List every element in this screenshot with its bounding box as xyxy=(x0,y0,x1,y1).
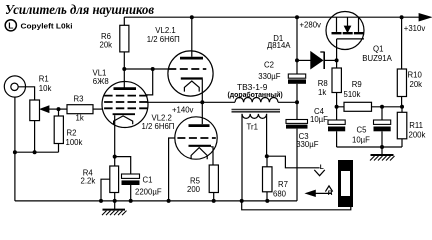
wire node A to R3 xyxy=(59,108,68,110)
diode D1 xyxy=(297,52,337,69)
wire right bottom bus xyxy=(337,145,402,149)
input jack XS1 xyxy=(4,76,25,97)
resistor R4 xyxy=(110,157,119,201)
svg-text:100k: 100k xyxy=(66,138,83,147)
svg-text:20k: 20k xyxy=(100,41,113,50)
VL1 cathode lead xyxy=(114,115,116,156)
wire pot bottom bus xyxy=(13,121,59,155)
svg-text:Tr1: Tr1 xyxy=(247,123,258,132)
svg-text:R2: R2 xyxy=(67,129,77,138)
capacitor C5 xyxy=(374,107,391,147)
node Q1 gate dot xyxy=(335,58,339,62)
title xyxy=(5,3,155,18)
label C3 330µF xyxy=(296,132,319,149)
svg-text:1k: 1k xyxy=(318,88,326,97)
resistor R10 xyxy=(397,15,406,107)
Tr1 secondary right lead xyxy=(266,114,268,156)
label R4 2.2k xyxy=(81,168,96,185)
svg-text:10µF: 10µF xyxy=(352,135,370,144)
wire sleeve return xyxy=(242,201,351,210)
VL2.1 cathode lead xyxy=(201,80,203,103)
node Tr1/R7 dot xyxy=(265,154,269,158)
tube VL1 envelope xyxy=(102,82,148,128)
svg-text:1k: 1k xyxy=(76,114,84,123)
label R8 1k xyxy=(318,79,328,97)
rail +140v xyxy=(147,101,297,103)
svg-text:200k: 200k xyxy=(409,131,426,140)
node VL1 cathode dot xyxy=(113,155,117,159)
svg-text:BUZ91A: BUZ91A xyxy=(362,54,392,63)
svg-text:R: R xyxy=(328,190,333,197)
svg-text:+140v: +140v xyxy=(172,106,194,115)
label VL2.2 xyxy=(142,113,175,131)
label C5 10µF xyxy=(352,126,370,145)
node +140 dots xyxy=(200,100,299,104)
svg-text:(доработанный): (доработанный) xyxy=(228,91,283,99)
svg-text:R7: R7 xyxy=(278,180,288,189)
label +140v xyxy=(172,106,194,115)
transistor Q1 envelope xyxy=(326,12,364,50)
resistor R8 xyxy=(332,60,341,106)
label VL1 6Ж8 xyxy=(93,69,109,87)
svg-text:R1: R1 xyxy=(39,74,49,83)
Q1 drain lead xyxy=(336,17,338,32)
node strap dot xyxy=(151,67,155,71)
label Q1 BUZ91A xyxy=(362,45,392,63)
label R6 20k xyxy=(100,32,113,50)
wire jack sleeve down xyxy=(14,97,16,201)
svg-text:L: L xyxy=(8,21,13,31)
Tr1 secondary left lead xyxy=(241,114,243,201)
node D1 branch dot xyxy=(295,15,299,19)
svg-text:10µF: 10µF xyxy=(310,115,328,124)
R channel arrow xyxy=(306,186,332,197)
VL1 grid g2 xyxy=(104,101,147,103)
svg-text:2200µF: 2200µF xyxy=(135,188,162,197)
svg-text:680: 680 xyxy=(273,189,287,198)
Tr1 secondary xyxy=(242,114,267,119)
capacitor C3 xyxy=(286,102,308,201)
copyleft logo xyxy=(5,20,72,31)
label R2 100k xyxy=(66,129,83,148)
label R3 1k xyxy=(74,95,84,123)
svg-text:L: L xyxy=(320,164,324,171)
R4 ground tap xyxy=(101,179,110,201)
svg-text:Q1: Q1 xyxy=(373,45,383,54)
capacitor C1 xyxy=(115,157,140,201)
capacitor C4 xyxy=(328,107,345,147)
label C1 2200µF xyxy=(135,176,162,197)
resistor R3 xyxy=(67,105,103,114)
label +310v xyxy=(404,24,426,33)
svg-text:R9: R9 xyxy=(352,80,362,89)
VL1 anode xyxy=(114,69,137,89)
svg-text:200: 200 xyxy=(187,185,201,194)
svg-text:R3: R3 xyxy=(74,95,84,104)
label VL2.1 xyxy=(147,26,180,44)
VL1 cathode xyxy=(113,114,135,124)
wire +280 branch down xyxy=(296,17,298,60)
VL2.1 cathode xyxy=(181,79,203,92)
Q1 channel bars xyxy=(332,32,364,34)
R1 wiper arrow xyxy=(41,106,59,112)
svg-text:+280v: +280v xyxy=(300,20,322,29)
label TV3-1-9 xyxy=(228,82,283,99)
svg-text:6Ж8: 6Ж8 xyxy=(93,77,109,86)
svg-text:2.2k: 2.2k xyxy=(81,177,96,186)
svg-text:R10: R10 xyxy=(408,71,423,80)
Q1 source lead xyxy=(358,17,360,32)
ground symbol left xyxy=(102,201,127,215)
tube VL2.1 envelope xyxy=(168,51,213,96)
svg-text:330µF: 330µF xyxy=(296,140,319,149)
Q1 gate xyxy=(337,39,364,61)
label Tr1 xyxy=(247,123,258,132)
label D1 Д814А xyxy=(267,34,291,50)
VL1 grid g1 xyxy=(104,107,147,109)
resistor R9 xyxy=(344,102,372,111)
wire output L xyxy=(267,156,320,168)
svg-text:1/2 6Н6П: 1/2 6Н6П xyxy=(142,122,175,131)
resistor R11 xyxy=(397,107,407,147)
resistor R1 (potentiometer) xyxy=(30,100,40,121)
capacitor C2 xyxy=(288,60,306,102)
label R10 20k xyxy=(408,71,423,89)
Q1 substrate arrow xyxy=(345,17,351,32)
svg-text:VL2.2: VL2.2 xyxy=(152,113,172,122)
svg-text:Copyleft L0ki: Copyleft L0ki xyxy=(21,22,73,31)
resistor R2 xyxy=(54,109,63,152)
VL2.1 grid xyxy=(168,68,206,70)
svg-text:C5: C5 xyxy=(357,126,368,135)
svg-text:Усилитель для наушников: Усилитель для наушников xyxy=(5,3,155,18)
top rail +280v/+310v xyxy=(124,16,426,18)
transformer Tr1 primary xyxy=(235,98,278,103)
headphone plug xyxy=(338,160,353,207)
arrow +310v xyxy=(419,14,430,21)
ground symbol right xyxy=(370,147,395,161)
Tr1 core xyxy=(232,110,281,112)
ground rail bottom xyxy=(15,200,297,202)
wire mid bus xyxy=(337,106,402,108)
VL2.1 anode xyxy=(180,15,203,58)
node D1 anode dot xyxy=(295,58,299,62)
label C2 330µF xyxy=(258,60,281,81)
L arrow chevron xyxy=(314,164,325,176)
resistor R6 xyxy=(120,17,129,69)
wire anode node to VL2.1 grid xyxy=(124,68,168,70)
node mid bus dots xyxy=(335,105,404,109)
svg-text:10k: 10k xyxy=(39,84,52,93)
label R9 510k xyxy=(344,80,362,99)
label +280v xyxy=(300,20,322,29)
node VL1 anode dot xyxy=(122,67,126,71)
wire triode strap to VL1 xyxy=(146,69,153,95)
svg-text:510k: 510k xyxy=(344,90,361,99)
svg-text:330µF: 330µF xyxy=(258,72,281,81)
node A dot (wiper junction) xyxy=(57,107,61,111)
label R11 200k xyxy=(409,121,426,140)
VL2.2 cathode lead xyxy=(211,147,213,165)
ground rail dots xyxy=(99,199,269,203)
label R7 680 xyxy=(273,180,288,198)
resistor R5 xyxy=(209,165,218,201)
wire jack to R1 xyxy=(18,87,34,100)
resistor R7 xyxy=(263,156,273,201)
svg-text:ТВЗ-1-9: ТВЗ-1-9 xyxy=(237,82,268,92)
label R5 200 xyxy=(187,177,201,195)
VL2.2 grid ground wire xyxy=(169,138,176,201)
VL1 grid g3 xyxy=(104,95,147,97)
svg-text:C1: C1 xyxy=(143,176,153,185)
svg-text:Д814А: Д814А xyxy=(267,41,291,50)
VL2.2 cathode xyxy=(189,146,212,159)
svg-text:1/2 6Н6П: 1/2 6Н6П xyxy=(147,35,180,44)
svg-text:R11: R11 xyxy=(409,121,423,130)
svg-text:C2: C2 xyxy=(264,60,274,69)
label C4 10µF xyxy=(310,107,328,124)
svg-text:+310v: +310v xyxy=(404,24,426,33)
label R1 10k xyxy=(39,74,52,93)
VL2.2 grid xyxy=(177,137,215,139)
tube VL2.2 envelope xyxy=(175,117,217,159)
svg-text:20k: 20k xyxy=(410,80,423,89)
svg-text:R8: R8 xyxy=(318,79,328,88)
VL2.2 anode xyxy=(189,102,210,125)
